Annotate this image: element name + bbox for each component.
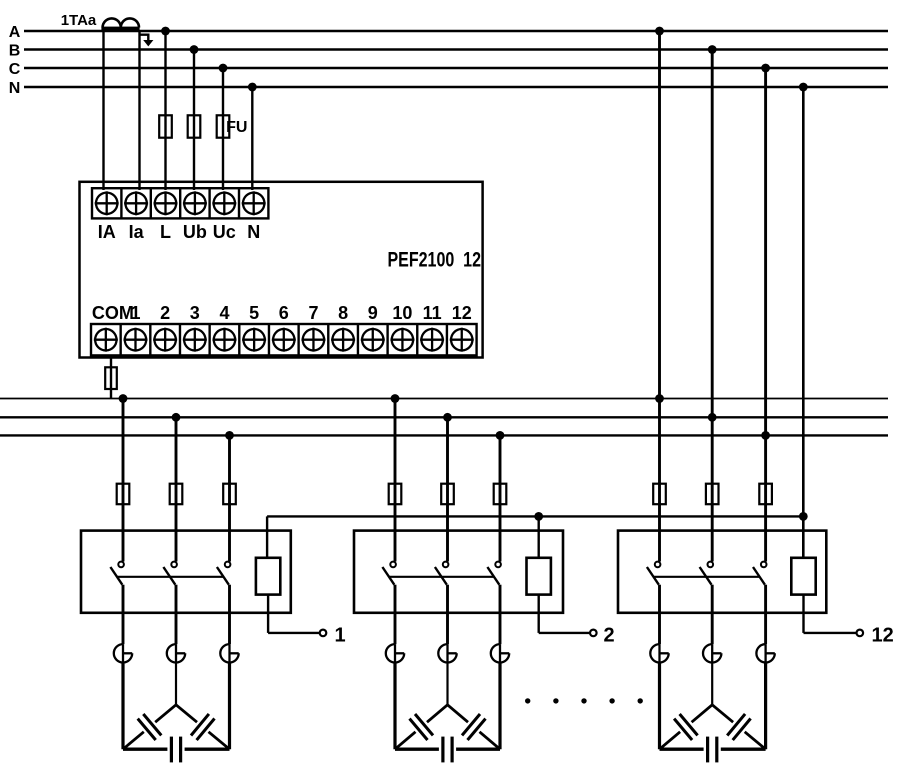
capacitor C12 left xyxy=(680,714,698,735)
svg-text:1: 1 xyxy=(130,303,140,323)
wire drop branch 2 pole 3 xyxy=(499,435,502,561)
terminal N xyxy=(238,188,240,218)
current transformer 1TAa primary bar and humps xyxy=(103,18,139,27)
node line 1 / branch 1 xyxy=(119,394,128,403)
svg-text:L: L xyxy=(160,222,171,242)
wire Uc tap drop xyxy=(222,68,224,190)
wire N tap drop xyxy=(251,87,253,190)
ellipsis dots (more branches) xyxy=(525,698,530,703)
terminal 6 xyxy=(268,324,270,355)
svg-text:FU: FU xyxy=(226,119,247,136)
wire KM2 pole 2 lower xyxy=(446,585,449,644)
contactor KM1 pole 1 contact xyxy=(118,562,124,568)
wire drop branch 1 pole 1 xyxy=(122,399,125,562)
svg-text:Ia: Ia xyxy=(129,222,145,242)
reactor KM2 pole 2 xyxy=(438,644,456,662)
node line 3 / branch 12 xyxy=(761,431,770,440)
terminal 5 xyxy=(238,324,240,355)
output terminal 1 xyxy=(320,630,327,637)
svg-text:3: 3 xyxy=(190,303,200,323)
output terminal 2 xyxy=(590,630,597,637)
terminal Ub xyxy=(179,188,181,218)
capacitor C1 bottom xyxy=(170,737,173,763)
wire bus B to line 2 xyxy=(711,50,714,418)
terminal 11 xyxy=(416,324,418,355)
terminal L xyxy=(150,188,152,218)
wire capbank 2 bottom xyxy=(395,748,439,751)
wire KM1 pole 2 lower xyxy=(175,585,178,644)
contactor coil KM2 xyxy=(527,558,551,595)
wire coil KM1 feed xyxy=(266,516,268,557)
node line 1 / branch 2 xyxy=(391,394,400,403)
node coil KM12 tap xyxy=(799,512,808,521)
wire coil KM1 to output xyxy=(267,595,269,633)
node line 2 / branch 1 xyxy=(172,413,181,422)
wire drop branch 1 pole 3 xyxy=(228,435,231,561)
svg-text:6: 6 xyxy=(279,303,289,323)
wire capbank 1 left diagonal xyxy=(155,705,176,722)
contactor KM2 pole 1 contact xyxy=(390,562,396,568)
fuse branch 1 pole 2 xyxy=(170,484,183,505)
fuse branch 12 pole 3 xyxy=(759,484,772,505)
fuse branch 12 pole 1 xyxy=(653,484,666,505)
svg-text:1TAa: 1TAa xyxy=(61,12,97,29)
svg-text:N: N xyxy=(9,80,21,97)
bus N wire xyxy=(24,86,888,88)
wire drop branch 12 pole 1 xyxy=(658,399,661,562)
wire capbank 2 left xyxy=(393,663,396,750)
svg-text:N: N xyxy=(247,222,260,242)
terminal 4 xyxy=(208,324,210,355)
fuse branch 12 pole 2 xyxy=(706,484,719,505)
terminal 2 xyxy=(149,324,151,355)
contactor KM2 pole 3 contact xyxy=(495,562,501,568)
COM wire xyxy=(110,355,112,398)
bus A wire xyxy=(24,30,888,32)
fuse branch 2 pole 2 xyxy=(441,484,454,505)
reactor KM1 pole 1 xyxy=(114,644,132,662)
capacitor C1 right xyxy=(191,714,209,736)
wire capbank 12 right xyxy=(764,663,767,750)
contactor KM1 linkage bar xyxy=(117,576,224,578)
node line 2 / branch 2 xyxy=(443,413,452,422)
output terminal 12 xyxy=(857,630,864,637)
wire drop branch 12 pole 3 xyxy=(764,435,767,561)
node on bus B (Ub tap) xyxy=(190,45,199,54)
contactor coil KM12 xyxy=(791,558,815,595)
terminal 1 xyxy=(119,324,121,355)
wire drop branch 1 pole 2 xyxy=(175,417,178,561)
terminal 7 xyxy=(297,324,299,355)
wire drop branch 12 pole 2 xyxy=(711,417,714,561)
fuse FU phase A xyxy=(159,115,172,137)
svg-text:4: 4 xyxy=(219,303,229,323)
svg-text:Ub: Ub xyxy=(183,222,207,242)
svg-text:8: 8 xyxy=(338,303,348,323)
wire Ub tap drop xyxy=(193,50,195,191)
svg-text:1: 1 xyxy=(335,625,346,647)
svg-text:B: B xyxy=(9,43,21,60)
wire coil KM2 to output xyxy=(538,595,540,633)
contactor KM12 linkage bar xyxy=(653,576,759,578)
distribution line 2 (control bus B) xyxy=(0,416,888,418)
wire capbank 1 right diagonal xyxy=(176,705,197,722)
svg-text:12: 12 xyxy=(452,303,472,323)
fuse branch 1 pole 1 xyxy=(117,484,130,505)
node on bus B (branch 12 supply) xyxy=(708,45,717,54)
CT secondary wire left (to IA) xyxy=(102,31,104,190)
wire capbank 12 left xyxy=(658,663,661,750)
contactor KM12 box xyxy=(618,531,826,613)
svg-text:COM: COM xyxy=(92,303,134,323)
top terminal strip frame xyxy=(92,188,268,218)
fuse branch 2 pole 1 xyxy=(389,484,402,505)
wire capbank 2 right xyxy=(498,663,501,750)
fuse on COM wire xyxy=(105,367,117,389)
wire bus N to coil KM12 xyxy=(802,87,805,558)
contactor KM2 box xyxy=(354,531,563,613)
wire capbank 12 left diagonal xyxy=(692,705,713,722)
terminal 10 xyxy=(386,324,388,355)
capacitor C2 left xyxy=(415,714,433,735)
reactor KM2 pole 1 xyxy=(386,644,404,662)
wire L tap drop xyxy=(164,31,166,190)
contactor KM12 pole 2 contact xyxy=(708,562,714,568)
node line 2 / branch 12 xyxy=(708,413,717,422)
wire capbank 2 left diagonal xyxy=(427,705,448,722)
contactor KM12 pole 1 contact xyxy=(655,562,661,568)
svg-text:Uc: Uc xyxy=(213,222,236,242)
controller U1 PEF2100 box xyxy=(80,182,483,358)
svg-text:5: 5 xyxy=(249,303,259,323)
reactor KM1 pole 2 xyxy=(167,644,185,662)
node on bus C (Uc tap) xyxy=(219,64,228,73)
coil supply wire (neutral rail) xyxy=(267,515,803,517)
terminal Uc xyxy=(208,188,210,218)
terminal 9 xyxy=(357,324,359,355)
contactor KM2 pole 2 contact xyxy=(443,562,449,568)
svg-text:C: C xyxy=(9,61,21,78)
wire bus C to line 3 xyxy=(764,68,767,435)
wire coil KM12 to output xyxy=(802,595,804,633)
node line 3 / branch 2 xyxy=(496,431,505,440)
capacitor C1 left xyxy=(143,714,161,735)
bottom terminal strip frame xyxy=(91,324,477,355)
svg-text:7: 7 xyxy=(308,303,318,323)
terminal Ia xyxy=(120,188,122,218)
svg-text:A: A xyxy=(9,24,21,41)
wire KM2 pole 3 lower xyxy=(499,585,502,644)
CT polarity arrow xyxy=(140,35,149,41)
capacitor C12 bottom xyxy=(706,737,709,763)
contactor KM1 box xyxy=(81,531,291,613)
svg-text:PEF2100 12: PEF2100 12 xyxy=(388,249,482,272)
fuse FU phase C xyxy=(217,115,230,137)
wire coil KM2 feed xyxy=(538,516,540,557)
capacitor C2 bottom xyxy=(441,737,444,763)
reactor KM2 pole 3 xyxy=(491,644,509,662)
reactor KM12 pole 3 xyxy=(756,644,774,662)
distribution line 1 (control bus A) xyxy=(0,398,888,400)
fuse branch 2 pole 3 xyxy=(494,484,507,505)
contactor coil KM1 xyxy=(256,558,280,595)
contactor KM2 linkage bar xyxy=(389,576,494,578)
node on bus N (N tap) xyxy=(248,83,257,92)
wire KM12 pole 2 lower xyxy=(711,585,714,644)
node on bus A (branch 12 supply) xyxy=(655,27,664,36)
contactor KM1 pole 3 contact xyxy=(225,562,231,568)
node on bus C (branch 12 supply) xyxy=(761,64,770,73)
node line 3 / branch 1 xyxy=(225,431,234,440)
svg-text:9: 9 xyxy=(368,303,378,323)
reactor KM12 pole 1 xyxy=(650,644,668,662)
node on bus N (coil return) xyxy=(799,83,808,92)
fuse branch 1 pole 3 xyxy=(223,484,236,505)
wire KM1 pole 3 lower xyxy=(228,585,231,644)
fuse FU phase B xyxy=(188,115,201,137)
svg-text:11: 11 xyxy=(423,303,442,323)
terminal IA xyxy=(96,193,117,214)
wire capbank 12 right diagonal xyxy=(712,705,733,722)
capacitor C12 right xyxy=(727,714,745,736)
wire bus A to line 1 xyxy=(658,31,661,399)
svg-text:2: 2 xyxy=(160,303,170,323)
node coil KM2 tap xyxy=(534,512,543,521)
node line 1 / branch 12 xyxy=(655,394,664,403)
wire capbank 1 bottom xyxy=(123,748,167,751)
wire capbank 2 mid xyxy=(446,663,448,705)
terminal COM xyxy=(95,329,116,350)
wire KM12 pole 1 lower xyxy=(658,585,661,644)
svg-text:10: 10 xyxy=(392,303,412,323)
bus B wire xyxy=(24,48,888,50)
wire capbank 12 bottom xyxy=(660,748,704,751)
bus C wire xyxy=(24,67,888,69)
wire capbank 1 left xyxy=(121,663,124,750)
wire drop branch 2 pole 1 xyxy=(394,399,397,562)
node on bus A (L tap) xyxy=(161,27,170,36)
svg-text:IA: IA xyxy=(98,222,116,242)
CT secondary wire right (to Ia) xyxy=(138,31,140,190)
wire drop branch 2 pole 2 xyxy=(446,417,449,561)
wire capbank 1 right xyxy=(228,663,231,750)
contactor KM1 pole 2 contact xyxy=(171,562,177,568)
svg-text:2: 2 xyxy=(604,625,615,647)
reactor KM1 pole 3 xyxy=(220,644,238,662)
terminal 8 xyxy=(327,324,329,355)
wire capbank 1 mid xyxy=(175,663,177,705)
svg-text:12: 12 xyxy=(872,625,894,647)
wire KM2 pole 1 lower xyxy=(394,585,397,644)
terminal 12 xyxy=(446,324,448,355)
wire capbank 12 mid xyxy=(711,663,713,705)
wire KM1 pole 1 lower xyxy=(122,585,125,644)
wire capbank 2 right diagonal xyxy=(448,705,469,722)
capacitor C2 right xyxy=(462,714,480,735)
terminal 3 xyxy=(179,324,181,355)
contactor KM12 pole 3 contact xyxy=(761,562,767,568)
reactor KM12 pole 2 xyxy=(703,644,721,662)
distribution line 3 (control bus C) xyxy=(0,434,888,436)
wire KM12 pole 3 lower xyxy=(764,585,767,644)
